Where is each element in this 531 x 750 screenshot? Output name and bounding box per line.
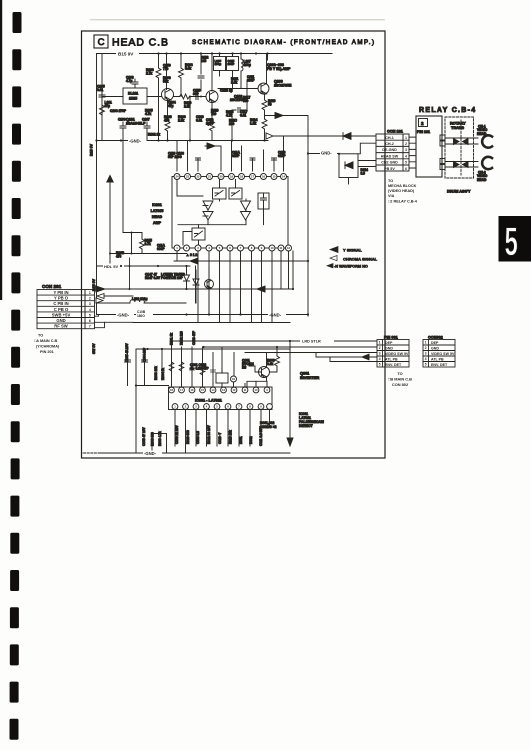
svg-text:PIN 101: PIN 101 xyxy=(417,130,430,134)
label GND mid xyxy=(320,150,337,156)
svg-text:19: 19 xyxy=(230,175,234,179)
wire left column xyxy=(135,349,137,453)
svg-text:VIDEO SW 5V: VIDEO SW 5V xyxy=(431,352,455,356)
svg-text:18: 18 xyxy=(240,175,244,179)
svg-text:0.01: 0.01 xyxy=(97,88,103,92)
wire box column xyxy=(220,54,233,89)
wire ic801 vcc line xyxy=(136,385,169,387)
svg-text:-GND-: -GND- xyxy=(117,313,130,318)
amp triangle A1 xyxy=(203,201,213,210)
svg-text:VIA: VIA xyxy=(388,194,395,198)
transistor Q102 xyxy=(206,91,218,103)
wire box jog to con101 row2 xyxy=(358,143,376,154)
junction dots ground rail xyxy=(95,139,265,141)
svg-text:TO: TO xyxy=(38,334,43,338)
transistor Q101 xyxy=(162,89,174,101)
transistor Q104 xyxy=(205,280,214,289)
svg-text:R813 10k: R813 10k xyxy=(229,430,233,444)
IC101 bottom pin numbers xyxy=(176,246,290,250)
svg-text:12: 12 xyxy=(287,246,291,250)
wire Q102 collector xyxy=(211,54,213,92)
svg-text:DRUM ASS'Y: DRUM ASS'Y xyxy=(447,190,471,194)
svg-text:HEAD C.B: HEAD C.B xyxy=(112,37,168,49)
CON101 pin numbers xyxy=(405,136,407,171)
wire gnd to relay xyxy=(308,153,339,155)
capacitor plates on stub 192 xyxy=(190,368,195,370)
wire bus to pin801 row2 xyxy=(204,346,378,348)
IC101 top pin row xyxy=(174,174,287,180)
svg-text:C: C xyxy=(98,37,105,48)
resistor squiggles on stubs xyxy=(169,362,205,375)
resistor R107 horizontal xyxy=(180,94,190,99)
junction dots feedback xyxy=(109,232,133,255)
bottom circuit gnd rail xyxy=(100,452,290,454)
component box bottom left xyxy=(152,434,167,454)
capacitor C10B label xyxy=(136,310,153,318)
relay drive box xyxy=(339,154,358,178)
svg-text:R102 1k: R102 1k xyxy=(148,133,160,137)
svg-text:R804 1k: R804 1k xyxy=(161,368,165,380)
label GND mid rail right xyxy=(268,312,286,318)
svg-text:11: 11 xyxy=(280,246,283,250)
svg-text:C108 270P: C108 270P xyxy=(110,109,127,113)
ground rail upper xyxy=(97,140,269,142)
op-amp IC101 body xyxy=(172,177,288,249)
svg-text:(VIDEO HEAD): (VIDEO HEAD) xyxy=(388,189,415,193)
wire CON201 row6 to rail xyxy=(95,321,134,323)
wire CON201 row2 xyxy=(97,294,133,299)
wire left cap drop c807 xyxy=(125,349,131,386)
rotary gap dashed line xyxy=(460,120,462,175)
capacitor plates on stub 213 xyxy=(211,370,216,372)
svg-text:R810 680: R810 680 xyxy=(186,430,190,444)
wire q801 collector xyxy=(266,353,268,368)
switch block S1 inside IC101 xyxy=(213,188,227,199)
svg-text:15: 15 xyxy=(272,175,276,179)
capacitor C113a on base wire xyxy=(196,94,198,100)
connector CON802 table xyxy=(423,340,455,368)
svg-text:14: 14 xyxy=(212,388,215,392)
svg-text:-GND-: -GND- xyxy=(144,451,157,456)
wire relay to head ch1 pair xyxy=(445,138,478,144)
svg-text:4: 4 xyxy=(379,357,381,361)
svg-text:C111330P: C111330P xyxy=(247,75,255,82)
faint scan smudge along top xyxy=(90,19,385,20)
svg-text:12: 12 xyxy=(233,388,236,392)
junction dots riser xyxy=(129,265,131,290)
svg-text:7: 7 xyxy=(89,325,91,329)
label LRD STLR xyxy=(300,338,334,344)
svg-text:GND: GND xyxy=(431,346,439,350)
delay line DL101 xyxy=(102,88,162,104)
svg-text:Y SIGNAL: Y SIGNAL xyxy=(343,248,362,253)
junction dots bus xyxy=(170,340,291,348)
wire chroma out xyxy=(97,251,293,292)
svg-text:PB 5V: PB 5V xyxy=(384,167,395,171)
svg-text:□2 RELAY C.B-4: □2 RELAY C.B-4 xyxy=(388,200,418,204)
svg-text:CH2 GND: CH2 GND xyxy=(381,161,398,165)
wire Q102 base xyxy=(174,97,207,141)
diode D104 xyxy=(193,270,199,303)
svg-text:ROTARYTRANS: ROTARYTRANS xyxy=(450,122,466,130)
wire eq out arrow right xyxy=(265,113,309,317)
relay pin boxes right edge xyxy=(440,135,445,170)
wire left cap drop c804 xyxy=(142,349,148,386)
svg-text:RELAY C.B-4: RELAY C.B-4 xyxy=(419,107,476,114)
label HDL 5V xyxy=(103,264,124,270)
svg-text:21: 21 xyxy=(208,175,212,179)
page left edge line xyxy=(0,0,2,300)
svg-text:17: 17 xyxy=(251,175,255,179)
svg-text:C PB IN: C PB IN xyxy=(53,301,68,306)
binder perforation strip xyxy=(10,12,22,740)
svg-text:3: 3 xyxy=(425,352,427,356)
svg-text:5: 5 xyxy=(505,219,518,264)
relay small box with 2 xyxy=(419,119,428,127)
svg-text:L102 180μ: L102 180μ xyxy=(132,297,147,301)
svg-text:180O: 180O xyxy=(137,314,145,318)
svg-text:LOWER TRANSPOSITION 10P: LOWER TRANSPOSITION 10P xyxy=(161,273,185,281)
svg-text:C809 3.3: C809 3.3 xyxy=(196,431,200,444)
legend arrow Y signal xyxy=(330,247,338,253)
switch block S2 inside IC101 xyxy=(229,188,242,199)
svg-text:MECHA BLOCK: MECHA BLOCK xyxy=(388,184,417,188)
rotary transformer ch2 xyxy=(454,162,469,168)
svg-text:4: 4 xyxy=(425,357,427,361)
svg-text:24: 24 xyxy=(175,175,179,179)
svg-text:-GND-: -GND- xyxy=(269,313,282,318)
IC101 bottom pin row xyxy=(174,245,292,251)
junction dot vcc xyxy=(135,384,137,386)
svg-text:C11B 1μ: C11B 1μ xyxy=(220,89,233,93)
resistor R112 xyxy=(201,56,209,63)
capacitor C117 plates xyxy=(238,108,240,113)
wire Q101 collector xyxy=(166,54,168,90)
IC801 bottom pin row xyxy=(172,404,272,410)
svg-text:C PB O: C PB O xyxy=(54,307,69,312)
svg-text:3: 3 xyxy=(379,352,381,356)
svg-text:PIN 801: PIN 801 xyxy=(384,336,398,340)
svg-text:CON 101: CON 101 xyxy=(387,130,403,134)
svg-text:15: 15 xyxy=(201,388,204,392)
filter boxes L105 C115 xyxy=(214,57,239,71)
amp triangle A3 xyxy=(241,201,251,210)
legend arrow chroma xyxy=(330,256,337,261)
capacitor stubs above ic101 pins xyxy=(196,158,277,160)
svg-text:C810 ·7: C810 ·7 xyxy=(218,432,222,444)
wire Q102-Q103 coupling xyxy=(218,80,258,89)
node B15 9V supply rail xyxy=(97,53,333,55)
pin circle 10 above ic801 xyxy=(231,376,237,387)
svg-text:1: 1 xyxy=(405,136,407,140)
svg-text:TO: TO xyxy=(397,371,402,376)
wire stub border to rail xyxy=(82,452,101,454)
CON201 row labels xyxy=(52,290,71,329)
wire bottom rail top xyxy=(136,348,290,350)
wire bus to pin801 row1 xyxy=(172,340,378,342)
svg-text:L107180μ: L107180μ xyxy=(244,60,251,67)
svg-text:1: 1 xyxy=(379,341,381,345)
svg-text:DEP: DEP xyxy=(431,341,439,345)
arrow into CON201 row1 xyxy=(96,286,105,292)
CON201 pin numbers xyxy=(89,291,91,329)
internal switch block lower xyxy=(192,225,205,245)
svg-text:1H25: 1H25 xyxy=(129,97,137,101)
svg-text:6: 6 xyxy=(89,319,91,323)
wire CON201 row5 stub xyxy=(95,315,99,317)
svg-text:2: 2 xyxy=(379,346,381,350)
IC801 top pin row xyxy=(169,387,270,393)
svg-text:B15 9V: B15 9V xyxy=(90,143,94,156)
PIN801 row labels xyxy=(385,341,409,367)
rotary transformer ch1 xyxy=(454,139,469,145)
svg-text:R812 33 10V: R812 33 10V xyxy=(207,425,211,444)
label TO MAIN CB xyxy=(34,334,60,355)
svg-text:CON 802: CON 802 xyxy=(392,382,409,387)
svg-text:Y PB O: Y PB O xyxy=(54,296,69,301)
svg-text:20: 20 xyxy=(219,175,223,179)
svg-text:GND: GND xyxy=(56,318,65,323)
svg-text:23: 23 xyxy=(186,175,190,179)
svg-text:IC801 - LA7911: IC801 - LA7911 xyxy=(195,399,222,403)
wire CON201 row7 stub xyxy=(95,322,105,327)
svg-text:4: 4 xyxy=(89,308,91,312)
resistor R115 xyxy=(140,233,153,254)
connector CON201 table xyxy=(37,290,95,329)
svg-text:R802 220: R802 220 xyxy=(180,331,184,345)
svg-text:VIDEO SW 5V: VIDEO SW 5V xyxy=(385,352,409,356)
IC801 top pin numbers xyxy=(170,388,268,392)
wire left bus xyxy=(96,54,98,315)
svg-text:TO: TO xyxy=(388,179,393,183)
resistor R806 xyxy=(270,347,280,372)
svg-text:Y PB IN: Y PB IN xyxy=(53,290,68,295)
svg-text:22: 22 xyxy=(196,175,200,179)
video head CH-1 gap symbol xyxy=(482,135,492,147)
svg-text:ATL PB: ATL PB xyxy=(385,357,398,361)
svg-text:-GND-: -GND- xyxy=(129,139,142,144)
svg-text:3: 3 xyxy=(89,302,91,306)
wire pb y signal line xyxy=(268,135,376,137)
capacitor C107 xyxy=(142,118,150,141)
arrow into CON201 row3 xyxy=(96,298,103,303)
svg-text:D802: D802 xyxy=(249,436,253,444)
internal wires IC101 xyxy=(177,180,264,225)
svg-text:10: 10 xyxy=(255,388,258,392)
wire pin1 drop to y out xyxy=(174,251,177,261)
svg-text:C107: C107 xyxy=(142,118,150,122)
diode D102 on y signal line xyxy=(343,133,351,140)
svg-text:5: 5 xyxy=(405,161,407,165)
wire relay to head ch2 pair xyxy=(445,162,478,168)
svg-text:C807 47 10V: C807 47 10V xyxy=(125,343,129,362)
capacitor C106 xyxy=(118,118,126,141)
wire box stub down xyxy=(348,178,350,185)
svg-text:ATL PB: ATL PB xyxy=(431,357,444,361)
svg-text:14: 14 xyxy=(282,175,286,179)
svg-text:C106: C106 xyxy=(118,118,126,122)
wire q103 base drop xyxy=(232,89,247,141)
wire ic101 pin1 drop xyxy=(176,141,178,172)
resistor R119 xyxy=(262,94,276,119)
wire Q103 collector xyxy=(266,54,268,84)
video head CH-2 gap symbol xyxy=(482,157,492,169)
svg-text:(Y/CHROMA): (Y/CHROMA) xyxy=(36,345,60,349)
svg-text:5: 5 xyxy=(379,363,381,367)
svg-text:18: 18 xyxy=(170,388,173,392)
svg-text:DL101: DL101 xyxy=(128,92,138,96)
wire riser to row1 xyxy=(129,258,131,289)
svg-text:CHROMA SIGNAL: CHROMA SIGNAL xyxy=(343,257,378,262)
arrow into ic101 pin area xyxy=(205,143,221,171)
label B15 9V xyxy=(116,51,139,57)
svg-text:2: 2 xyxy=(89,297,91,301)
svg-text:SCHEMATIC DIAGRAM- (FRONT/HEA: SCHEMATIC DIAGRAM- (FRONT/HEAD AMP.) xyxy=(192,39,374,46)
arrow open chroma at R114 xyxy=(266,133,273,139)
connector CON101 table xyxy=(376,134,409,171)
svg-text:HDL 5V: HDL 5V xyxy=(104,264,118,269)
svg-text:1: 1 xyxy=(89,291,91,295)
svg-text:2: 2 xyxy=(405,142,407,146)
capacitor C110 xyxy=(193,54,204,96)
wire column x162 xyxy=(161,349,163,380)
svg-text:16: 16 xyxy=(191,388,194,392)
resistor R106 xyxy=(146,54,161,141)
diode D103 in relay box xyxy=(345,162,353,169)
svg-text:LRD STLR: LRD STLR xyxy=(302,340,321,344)
svg-text:16: 16 xyxy=(262,175,266,179)
svg-text:CON 201: CON 201 xyxy=(42,284,62,289)
resistor R101 on left column xyxy=(100,105,105,115)
svg-text:SW 5V: SW 5V xyxy=(92,343,96,354)
svg-text:13: 13 xyxy=(222,388,225,392)
svg-text:PIN 201: PIN 201 xyxy=(40,350,54,354)
transistor Q801 xyxy=(259,367,270,378)
ground rail mid xyxy=(97,314,308,316)
svg-text:SWB +5V: SWB +5V xyxy=(52,312,71,317)
IC801 bottom pin numbers xyxy=(174,405,262,409)
svg-text:CH-1: CH-1 xyxy=(385,136,394,140)
amp triangle A4 xyxy=(241,212,251,221)
connector PIN801 table xyxy=(377,340,409,368)
svg-text:2: 2 xyxy=(425,346,427,350)
wires rail drops to IC101 top pins xyxy=(188,136,284,171)
svg-text:ENV. DET: ENV. DET xyxy=(431,363,448,367)
wire q801 base xyxy=(249,366,262,372)
CON802 row labels xyxy=(431,341,455,367)
label TO MECHA BLOCK xyxy=(388,179,418,204)
wire drops below IC801 xyxy=(175,410,270,454)
schematic outer border xyxy=(82,31,386,458)
svg-text:□B MAIN C.B: □B MAIN C.B xyxy=(388,377,412,382)
title block: C box xyxy=(94,35,108,48)
wire hdl 5v rail xyxy=(97,265,191,267)
wire lower sw link xyxy=(183,232,192,246)
svg-text:C11A680P: C11A680P xyxy=(157,244,166,251)
diode D101 xyxy=(184,266,190,289)
svg-text:C805 47 10V: C805 47 10V xyxy=(142,427,146,446)
waveform arrow up xyxy=(107,176,113,183)
svg-text:ENV. DET: ENV. DET xyxy=(385,363,402,367)
junction dots chroma xyxy=(185,288,294,290)
wire feedback net xyxy=(110,141,187,266)
svg-text:C11A015P: C11A015P xyxy=(232,151,241,159)
transistor Q103 xyxy=(258,83,269,94)
component box above ic801 xyxy=(216,368,228,387)
inductor L102 xyxy=(97,297,186,303)
resistor R108 xyxy=(179,54,193,97)
svg-text:GND-: GND- xyxy=(321,151,332,156)
wire Q102 emitter xyxy=(210,102,215,141)
svg-text:▲ 3 1 2: ▲ 3 1 2 xyxy=(186,253,197,257)
junction dots mid gnd xyxy=(185,313,309,315)
amp triangle A2 xyxy=(203,212,213,221)
resistor R114 xyxy=(250,118,267,141)
svg-text:D801,8021SS193 ×2: D801,8021SS193 ×2 xyxy=(260,421,277,429)
stubs to wires from ic top xyxy=(172,341,268,387)
svg-text:10: 10 xyxy=(270,246,274,250)
svg-text:C1121μ50: C1121μ50 xyxy=(206,118,214,125)
svg-text:C803 47P: C803 47P xyxy=(192,330,196,345)
wire L107a top right drop xyxy=(267,54,269,61)
wire q104 stub xyxy=(208,266,210,315)
junction dots hdl rail xyxy=(120,265,188,267)
wire box to con101 rows xyxy=(358,161,376,167)
lower rail 2 xyxy=(133,322,290,324)
svg-text:10: 10 xyxy=(232,377,236,381)
wire rail left corner drop xyxy=(101,54,103,141)
wire Q101 emitter to gnd xyxy=(165,100,170,141)
svg-text:6: 6 xyxy=(405,167,407,171)
svg-text:D801: D801 xyxy=(239,436,243,444)
svg-text:GND: GND xyxy=(385,346,393,350)
svg-text:R808 680: R808 680 xyxy=(151,432,155,446)
inductor L107 xyxy=(241,54,251,89)
wire c out drop xyxy=(195,266,197,303)
svg-text:C806 22 16V: C806 22 16V xyxy=(175,425,179,444)
svg-text:C811 3.3 50V: C811 3.3 50V xyxy=(259,426,263,446)
wire right column x290 xyxy=(289,341,291,445)
rotary transformer dashed box xyxy=(445,117,474,178)
junction dots supply rail xyxy=(157,52,268,54)
section number tab 5 xyxy=(499,216,531,263)
svg-text:RF SW: RF SW xyxy=(54,324,68,329)
label GND upper rail xyxy=(128,138,147,144)
wire bus to pin801 row4 xyxy=(316,353,377,360)
arrow down x290 xyxy=(287,438,293,446)
svg-text:C113015P: C113015P xyxy=(278,151,286,159)
op-amp IC801 body xyxy=(169,387,273,410)
svg-text:L105100μ: L105100μ xyxy=(215,59,222,66)
label GND bottom xyxy=(143,451,162,457)
legend arrow waveform xyxy=(327,264,333,268)
junction dots rail xyxy=(126,348,163,350)
wire bus to pin801 row3 xyxy=(245,352,377,354)
svg-text:C115100P: C115100P xyxy=(228,59,235,66)
svg-text:-N WAVEFORM NO: -N WAVEFORM NO xyxy=(334,265,368,269)
CON101 row labels xyxy=(381,136,399,171)
svg-text:HEAD SW: HEAD SW xyxy=(381,154,399,158)
svg-text:1: 1 xyxy=(425,341,427,345)
svg-text:3: 3 xyxy=(405,148,407,152)
svg-text:4: 4 xyxy=(405,154,407,158)
svg-text:CH-2: CH-2 xyxy=(385,142,394,146)
svg-text:CON802: CON802 xyxy=(428,336,443,340)
wire q801 emitter xyxy=(247,377,267,387)
svg-text:B15 9V: B15 9V xyxy=(118,52,134,57)
junction dot gnd relay wire xyxy=(307,152,340,155)
svg-text:17: 17 xyxy=(180,388,183,392)
